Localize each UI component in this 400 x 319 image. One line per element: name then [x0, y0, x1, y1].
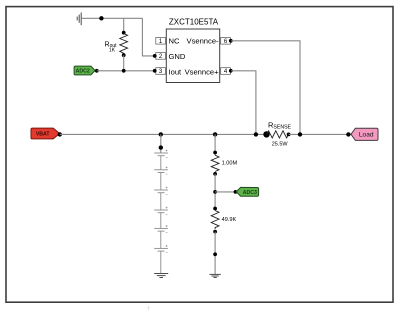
pin 2 box: [156, 53, 166, 61]
node sense+ junction: [254, 132, 258, 136]
tag ADC3 (green): [236, 187, 258, 196]
node divider tap: [213, 132, 217, 136]
node 49.9K top: [213, 207, 217, 211]
node ADC3 junction: [213, 190, 217, 194]
resistor 1.00M (vertical zigzag): [211, 155, 219, 171]
faint page mark below frame: [147, 307, 150, 311]
svg-text:1.00M: 1.00M: [222, 160, 238, 166]
wire: pin 6 to right bus down to sense-: [231, 41, 300, 135]
node battery top: [159, 145, 163, 149]
wire: main rail VBAT to Rsense: [60, 133, 267, 135]
wire: top wire to Rout top: [123, 18, 125, 32]
tag ADC2 (green): [74, 66, 95, 75]
pin 4 node: [229, 69, 233, 73]
tag Load (pink): [351, 128, 378, 140]
svg-text:ADC3: ADC3: [243, 190, 257, 196]
pin 6 node: [229, 39, 233, 43]
ground under divider: [209, 274, 220, 277]
wire: ground to corner above pin2: [81, 17, 142, 19]
cell 2: [154, 169, 168, 171]
pin 4 box: [221, 68, 231, 76]
svg-text:1K: 1K: [109, 48, 116, 54]
node VBAT: [58, 132, 62, 136]
svg-text:25.5W: 25.5W: [272, 141, 289, 147]
wire: to ADC3 tag: [215, 191, 235, 193]
svg-text:49.9K: 49.9K: [222, 217, 237, 223]
node Rout top: [122, 31, 126, 35]
svg-text:Iout: Iout: [169, 67, 183, 76]
node on ground wire: [213, 252, 217, 256]
wire: vertical drop to GND pin 2: [142, 18, 154, 56]
op-amp U1 ZXCT10E5TA body: [166, 29, 219, 83]
pin 1 box: [156, 38, 166, 46]
svg-text:GND: GND: [169, 52, 186, 61]
cell 3: [154, 189, 168, 191]
node 49.9K bottom: [213, 230, 217, 234]
svg-text:NC: NC: [169, 37, 180, 46]
cell 1: [154, 152, 168, 154]
pin 3 box: [156, 68, 166, 76]
ground (top-left, rotated earth symbol): [77, 13, 81, 26]
cell 6: [154, 247, 168, 249]
node divider top: [213, 151, 217, 155]
svg-text:Vsennce-: Vsennce-: [187, 37, 220, 46]
wire: Rout bottom to ADC2 net: [123, 55, 125, 71]
svg-text:Vsennce+: Vsennce+: [185, 67, 220, 76]
wire: battery column from rail: [160, 134, 162, 153]
pin 2 node: [153, 54, 157, 58]
wire: ADC2 to Iout pin 3: [97, 70, 155, 72]
svg-text:ADC2: ADC2: [76, 69, 90, 75]
svg-text:ZXCT10E5TA: ZXCT10E5TA: [169, 18, 219, 27]
node battery tap: [159, 132, 163, 136]
resistor Rout 1K (vertical zigzag): [120, 34, 128, 55]
wire: Rsense to Load: [289, 133, 349, 135]
resistor 49.9K (vertical zigzag): [211, 211, 219, 230]
wire: to ADC3 junction: [214, 174, 216, 209]
node on top wire: [99, 16, 103, 20]
pin 6 box: [221, 38, 231, 46]
battery B1 (6 cells): [154, 153, 168, 273]
wire: divider column from rail: [214, 134, 216, 155]
node 1.00M bottom: [213, 172, 217, 176]
battery polarity marks: [166, 150, 168, 253]
ground under battery: [154, 274, 168, 278]
wire: to ground: [214, 232, 216, 275]
pin 3 node: [153, 69, 157, 73]
node ADC3: [234, 190, 238, 194]
cell 5: [154, 227, 168, 229]
resistor RSENSE (horizontal zigzag): [263, 131, 269, 137]
node Rout bottom: [122, 53, 126, 57]
node ADC2: [95, 69, 99, 73]
cell 4: [154, 209, 168, 211]
wire: pin 4 down to sense+: [231, 71, 256, 135]
node Load: [346, 132, 350, 136]
node sense- junction: [298, 132, 302, 136]
svg-text:Load: Load: [359, 132, 374, 139]
svg-text:VBAT: VBAT: [36, 132, 51, 138]
node junction Rout/ADC2: [122, 69, 126, 73]
tag VBAT (red): [31, 128, 60, 139]
